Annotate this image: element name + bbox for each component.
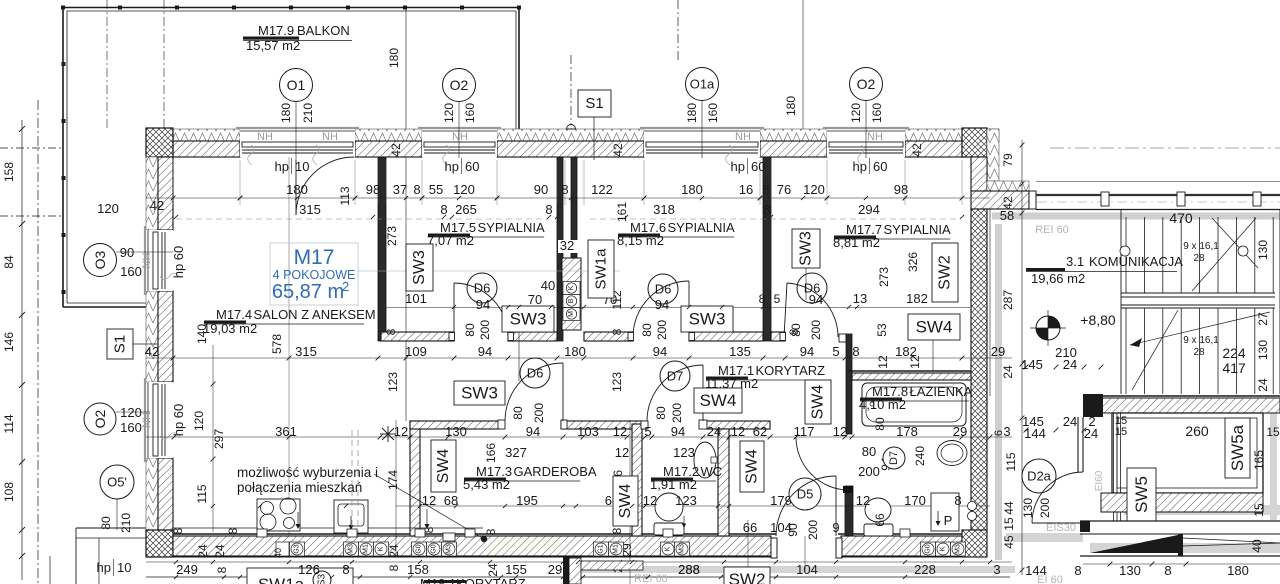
svg-text:K: K [665,546,672,551]
svg-text:EIS30: EIS30 [1046,522,1076,534]
door D6 M17.6 [648,274,678,304]
svg-text:126: 126 [298,562,320,577]
svg-text:D6: D6 [655,282,672,297]
svg-text:3: 3 [993,562,1000,577]
svg-text:158: 158 [2,162,16,182]
svg-text:165: 165 [1252,450,1266,470]
wc top wall [641,421,648,429]
svg-text:hp: hp [275,159,289,174]
svg-text:GARDEROBA: GARDEROBA [514,464,597,479]
tag O2 left [115,411,150,413]
svg-text:hp: hp [445,159,459,174]
svg-text:SW5a: SW5a [1228,424,1247,471]
svg-text:D2a: D2a [1027,469,1052,484]
svg-text:8,81 m2: 8,81 m2 [833,235,880,250]
svg-text:8: 8 [384,328,398,335]
svg-text:O1: O1 [287,77,306,93]
svg-text:103: 103 [577,424,599,439]
svg-text:361: 361 [275,424,297,439]
svg-text:SW4: SW4 [435,449,452,484]
vent semicircle on wall [567,125,576,130]
svg-text:90: 90 [120,245,134,260]
svg-text:NH: NH [257,131,273,143]
svg-text:SW3: SW3 [798,231,815,266]
svg-text:SYPIALNIA: SYPIALNIA [884,222,952,237]
bathroom top wall [848,370,971,372]
left margin dimension line [21,120,23,580]
bottom wall right of D5 gap [841,536,962,556]
svg-text:90: 90 [786,523,800,537]
svg-text:+8,80: +8,80 [1080,312,1116,328]
hob [257,499,300,531]
svg-text:180: 180 [685,103,699,123]
svg-text:24: 24 [1001,365,1015,379]
svg-text:113: 113 [338,186,352,205]
svg-text:15,57 m2: 15,57 m2 [246,38,300,53]
left wall seg1 [158,157,173,230]
svg-text:130: 130 [1256,240,1270,260]
svg-text:228: 228 [914,562,936,577]
svg-text:210: 210 [301,103,315,123]
svg-text:NH: NH [141,253,153,269]
svg-text:hp: hp [731,159,745,174]
svg-text:KORYTARZ: KORYTARZ [756,363,826,378]
svg-text:80: 80 [654,406,668,420]
door D7 bathroom tag [883,447,905,469]
svg-text:101: 101 [405,291,427,306]
bathroom lower-left wall [845,486,853,536]
svg-text:5: 5 [774,292,781,306]
svg-text:140: 140 [195,324,209,344]
svg-text:SW5: SW5 [1132,476,1151,513]
svg-text:24: 24 [707,424,721,439]
svg-text:13: 13 [853,291,867,306]
sink [334,500,368,533]
svg-text:120: 120 [120,405,142,420]
svg-text:15: 15 [1252,503,1266,517]
door jamb caps [449,333,455,341]
window O1a hp60 [644,129,760,157]
svg-text:94: 94 [800,344,814,359]
chain lines [146,197,990,199]
svg-text:130: 130 [1119,563,1141,578]
right wall insulation top [987,129,999,181]
svg-text:1,91 m2: 1,91 m2 [650,477,697,492]
svg-text:114: 114 [2,414,16,433]
svg-text:200: 200 [655,320,669,340]
svg-text:2: 2 [342,279,349,294]
svg-text:240: 240 [913,446,927,466]
partition P4 M17.6/M17.7 [763,157,771,341]
svg-text:60: 60 [873,159,887,174]
svg-text:SW3: SW3 [411,250,428,285]
svg-text:294: 294 [858,202,880,217]
socket symbols [290,542,305,556]
leader to dot [374,474,484,539]
svg-text:SW4: SW4 [810,385,827,420]
landing lines [1121,292,1275,294]
shaft labels [406,244,433,291]
svg-text:45: 45 [1002,535,1016,549]
svg-text:O3: O3 [92,250,108,269]
window hp10 + balcony door [240,129,355,157]
svg-text:M3: M3 [679,544,686,554]
balcony outline [63,7,519,9]
elevator bottom wall [1101,493,1263,512]
window O2 hp60 [422,129,497,157]
svg-text:37: 37 [393,182,407,197]
svg-text:94: 94 [809,292,823,307]
svg-text:12: 12 [422,493,436,508]
svg-text:80: 80 [511,406,525,420]
svg-text:160: 160 [463,103,477,123]
top-right corner block [962,128,987,157]
svg-text:70: 70 [528,292,542,307]
svg-text:123: 123 [675,493,697,508]
svg-text:115: 115 [195,484,209,503]
svg-text:SW1a: SW1a [593,248,610,290]
svg-text:98: 98 [894,182,908,197]
hob arrow [297,512,299,528]
svg-text:3.1: 3.1 [1066,254,1084,269]
tag O5p [100,465,134,499]
svg-text:42: 42 [611,143,625,157]
svg-text:połączenia mieszkań: połączenia mieszkań [237,480,362,495]
svg-text:SALON Z ANEKSEM: SALON Z ANEKSEM [254,307,376,322]
svg-text:NH: NH [867,131,883,143]
svg-text:12: 12 [615,445,629,460]
svg-text:470: 470 [1169,210,1193,226]
svg-text:60: 60 [465,159,479,174]
svg-text:287: 287 [1001,290,1015,310]
svg-text:180: 180 [387,48,401,68]
svg-text:15: 15 [1266,425,1280,439]
svg-text:M17: M17 [294,246,335,269]
svg-text:9 x 16,1: 9 x 16,1 [1183,335,1219,346]
svg-text:32: 32 [560,238,574,253]
svg-text:94: 94 [476,297,490,312]
svg-text:249: 249 [176,562,198,577]
svg-text:265: 265 [455,202,477,217]
wc basin [694,442,716,478]
wall under M17.6 [584,332,633,341]
svg-text:109: 109 [405,344,427,359]
bottom wall left of D5 gap [173,536,771,556]
partition P2 [557,157,563,341]
top wall insulation seg2 [355,129,422,141]
svg-text:SYPIALNIA: SYPIALNIA [478,220,546,235]
left window hp60 upper [144,230,173,291]
svg-text:210: 210 [1055,345,1077,360]
door D5 [789,478,821,510]
svg-text:200: 200 [809,320,823,340]
svg-text:8: 8 [387,564,401,571]
bottom-left corner block [146,530,173,557]
svg-text:62: 62 [753,424,767,439]
svg-text:SYPIALNIA: SYPIALNIA [668,220,736,235]
stair treads lower flight [1125,308,1127,394]
svg-text:40: 40 [1250,539,1264,553]
svg-text:24: 24 [387,544,401,558]
svg-text:161: 161 [615,202,629,222]
shaft SW1a hatch [562,258,581,330]
svg-text:160: 160 [120,420,142,435]
terrace lines bottom-left [76,527,146,529]
corridor bottom wall [1083,395,1280,397]
svg-text:80: 80 [789,323,803,337]
svg-text:8,15 m2: 8,15 m2 [617,233,664,248]
svg-text:8: 8 [852,344,859,359]
svg-text:12: 12 [613,424,627,439]
svg-text:SW4: SW4 [744,449,761,484]
svg-text:8: 8 [1074,563,1081,578]
svg-text:180: 180 [279,103,293,123]
top wall pier2 [355,141,422,157]
svg-text:10: 10 [295,159,309,174]
svg-text:G0: G0 [431,544,438,553]
dashed property line [37,100,39,584]
svg-text:12: 12 [856,493,870,508]
svg-text:G0: G0 [925,544,932,553]
svg-text:8: 8 [171,527,185,534]
svg-text:44: 44 [1002,501,1016,515]
svg-text:SW3: SW3 [461,384,498,403]
wall under M17.7 [771,332,785,341]
svg-text:SW2: SW2 [937,255,954,290]
wc left wall [632,424,642,536]
svg-text:315: 315 [295,344,317,359]
svg-text:hp: hp [853,159,867,174]
svg-text:94: 94 [653,344,667,359]
svg-text:8: 8 [215,566,229,573]
svg-text:19,03 m2: 19,03 m2 [203,321,257,336]
svg-text:8: 8 [561,182,568,197]
black wall piece lower apartment [563,557,569,584]
svg-text:NH: NH [452,131,468,143]
svg-text:D6: D6 [527,366,544,381]
svg-text:55: 55 [429,182,443,197]
svg-text:24: 24 [1256,378,1270,392]
svg-text:80: 80 [862,444,876,459]
door D6 M17.5 [467,273,497,303]
svg-text:29: 29 [991,344,1005,359]
svg-text:160: 160 [120,264,142,279]
stair diagonals [1192,218,1256,291]
svg-text:224: 224 [1222,345,1246,361]
svg-text:180: 180 [1227,563,1249,578]
svg-text:160: 160 [870,103,884,123]
stair treads upper flight [1125,217,1127,293]
svg-text:180: 180 [681,182,703,197]
svg-text:318: 318 [653,202,675,217]
svg-text:O2: O2 [450,77,469,93]
dashdot line right of stub [1050,147,1280,149]
svg-text:182: 182 [906,291,928,306]
left window hp60 lower [144,382,173,458]
washbasin bathroom [937,441,967,466]
svg-text:42: 42 [145,344,159,359]
tag S1 left [133,343,158,345]
svg-text:200: 200 [478,320,492,340]
svg-text:REI 60: REI 60 [1035,224,1069,236]
svg-text:NH: NH [322,131,338,143]
gray REI60 bands [992,213,1280,220]
svg-text:M17.9: M17.9 [258,23,294,38]
garderoba left wall [410,421,420,536]
demolition highlight [487,538,563,554]
svg-text:60: 60 [751,159,765,174]
svg-text:40: 40 [541,278,555,293]
svg-text:108: 108 [2,482,16,502]
D2a door [1022,459,1056,493]
svg-text:SW4: SW4 [700,391,737,410]
svg-text:200: 200 [1038,498,1052,518]
right wall upper [971,157,987,191]
top wall pier3 [497,141,644,157]
small white caps on bottom wall top [257,529,267,537]
top wall insulation seg5 [905,129,999,141]
demolition dashed wall [351,430,353,532]
svg-text:NH: NH [141,412,153,428]
svg-text:210: 210 [119,513,133,533]
left wall insulation seg2 [146,291,158,382]
svg-text:27: 27 [1256,312,1270,326]
stub insulation [987,181,1029,191]
svg-text:123: 123 [673,445,695,460]
extra chain ticks [238,196,242,200]
wc right wall [718,429,729,536]
svg-text:170: 170 [904,493,926,508]
svg-text:94: 94 [526,424,540,439]
partition P3 [571,157,577,258]
svg-text:9 x 16,1: 9 x 16,1 [1183,241,1219,252]
12 68 arrow [426,509,428,528]
svg-text:326: 326 [906,252,920,272]
top wall pier5 [905,141,962,157]
svg-text:123: 123 [386,372,400,392]
apartment label M17 blue [270,243,358,305]
svg-text:REI 60: REI 60 [634,573,668,584]
svg-text:M17.4: M17.4 [216,307,252,322]
svg-text:144: 144 [1025,563,1047,578]
svg-text:417: 417 [1222,360,1246,376]
svg-text:5: 5 [832,344,839,359]
svg-text:42: 42 [150,198,164,213]
wall under M17.5 [381,332,454,341]
tag O3 [116,251,173,253]
svg-text:12: 12 [394,424,408,439]
svg-text:możliwość wyburzenia i: możliwość wyburzenia i [237,465,378,480]
svg-text:5,43 m2: 5,43 m2 [463,477,510,492]
svg-text:80: 80 [873,417,887,431]
top wall pier4 [760,141,827,157]
svg-text:66: 66 [873,513,887,527]
svg-text:8: 8 [610,527,624,534]
svg-text:8: 8 [413,182,420,197]
svg-text:79: 79 [1001,153,1015,167]
wc toilet [655,493,683,521]
top-left corner block [146,128,173,157]
svg-text:P: P [944,513,953,528]
svg-text:135: 135 [729,344,751,359]
left wall insulation seg3 [146,458,158,530]
svg-text:120: 120 [97,201,119,216]
svg-text:16: 16 [739,182,753,197]
svg-text:200: 200 [806,520,820,540]
svg-text:145: 145 [1021,357,1043,372]
svg-text:42: 42 [910,143,924,157]
svg-text:80: 80 [463,323,477,337]
door D7 wc [660,361,690,391]
elevation marker [1036,316,1060,340]
svg-text:120: 120 [849,103,863,123]
svg-text:66: 66 [743,520,757,535]
bottom-right corner [962,530,987,557]
svg-text:M3: M3 [955,544,962,554]
svg-text:M3: M3 [348,544,355,554]
svg-text:90: 90 [534,182,548,197]
vertical centerlines top [106,0,108,129]
svg-text:65,87 m: 65,87 m [272,281,344,303]
svg-text:6: 6 [993,430,1005,436]
svg-text:S1: S1 [112,335,129,353]
svg-text:29: 29 [953,424,967,439]
svg-text:8: 8 [342,562,349,577]
svg-text:8: 8 [440,202,447,217]
bottom section lines [1080,520,1280,522]
svg-text:8: 8 [763,202,770,217]
bathtub [862,383,966,426]
svg-text:58: 58 [1000,208,1014,223]
svg-text:40: 40 [273,548,283,558]
svg-text:SW2: SW2 [729,570,766,584]
svg-text:200: 200 [670,403,684,423]
svg-text:10: 10 [117,560,131,575]
svg-text:200: 200 [532,403,546,423]
svg-text:15: 15 [1115,426,1127,438]
partition P1 salon/M17.5 [378,157,386,341]
svg-text:260: 260 [1185,423,1209,439]
svg-text:G3: G3 [294,544,301,553]
svg-text:8: 8 [610,328,624,335]
svg-text:K: K [378,546,385,551]
svg-text:98: 98 [366,182,380,197]
right wall main [971,209,987,536]
svg-text:8: 8 [226,527,240,534]
window tag O1a [701,100,703,158]
svg-text:O5': O5' [107,475,127,490]
svg-text:G0: G0 [416,544,423,553]
bathroom upper-left wall [846,334,852,434]
svg-text:12: 12 [908,355,922,369]
svg-text:94: 94 [655,297,669,312]
svg-text:130: 130 [1256,340,1270,360]
svg-text:ŁAZIENKA: ŁAZIENKA [910,384,973,399]
svg-text:123: 123 [610,372,624,392]
svg-text:M1: M1 [363,544,370,554]
svg-text:24: 24 [213,544,227,558]
svg-text:SW3: SW3 [510,310,547,329]
asterisk [380,426,396,442]
svg-text:8: 8 [1164,563,1171,578]
svg-text:8: 8 [484,528,498,535]
svg-text:160: 160 [706,103,720,123]
svg-text:327: 327 [505,445,527,460]
svg-text:8: 8 [954,493,961,508]
svg-text:hp 60: hp 60 [171,404,186,437]
svg-text:SW3: SW3 [689,310,726,329]
svg-text:122: 122 [591,182,613,197]
